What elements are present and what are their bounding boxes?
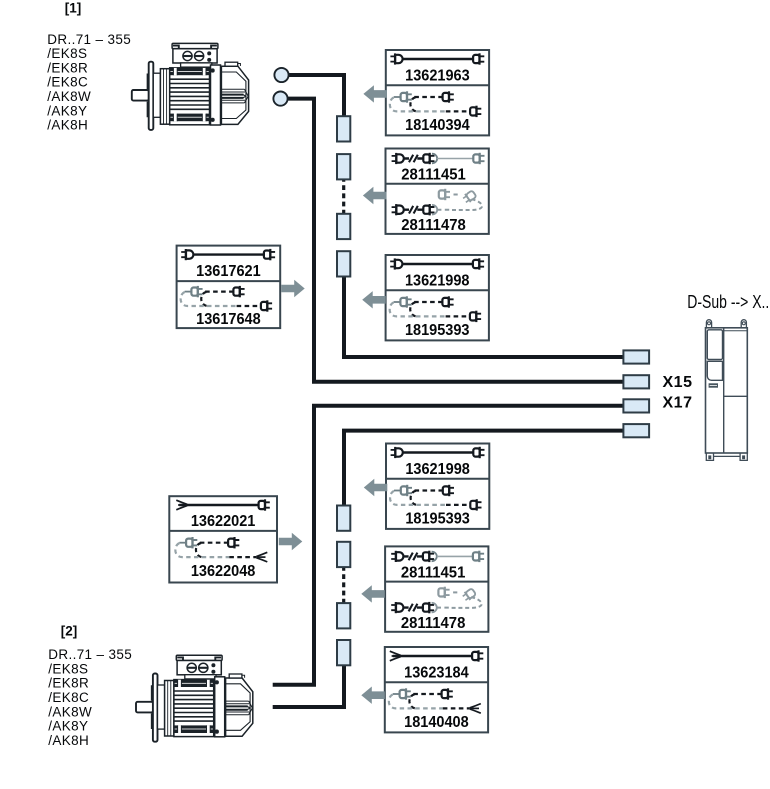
svg-text:/AK8H: /AK8H: [48, 733, 89, 748]
svg-text:[2]: [2]: [61, 623, 78, 638]
connector A4: [337, 251, 350, 276]
label [2]: [61, 623, 78, 638]
part box 28111451 / 28111478 (bottom): [385, 546, 488, 632]
connector B2: [337, 542, 350, 567]
part box 13622021 / 13622048: [169, 496, 277, 582]
stator body with fins: [170, 68, 210, 125]
arrow to chain A from box 28111478: [363, 187, 387, 204]
svg-text:/EK8R: /EK8R: [47, 60, 88, 75]
svg-text:/EK8S: /EK8S: [47, 46, 87, 61]
wire W2 chain A to D-sub block 1: [344, 276, 628, 357]
D-sub connector block 4: [623, 424, 649, 437]
dashed link chain B: [342, 566, 345, 604]
cowl adapter ring: [211, 65, 221, 125]
svg-text:28111451: 28111451: [401, 564, 466, 581]
svg-text:18195393: 18195393: [405, 322, 470, 339]
svg-text:13621998: 13621998: [405, 272, 470, 289]
svg-text:18195393: 18195393: [405, 511, 470, 528]
motor M1 plug circle 1: [274, 68, 288, 82]
svg-text:/AK8H: /AK8H: [47, 118, 88, 133]
D-sub connector block 3 X17: [623, 399, 649, 412]
label X15: [663, 374, 693, 391]
svg-text:18140408: 18140408: [404, 714, 469, 731]
svg-text:13621963: 13621963: [405, 67, 470, 84]
label X17: [663, 394, 693, 411]
svg-text:/EK8C: /EK8C: [47, 75, 88, 90]
arrow to chain B from box 18195393: [364, 479, 388, 496]
svg-text:[1]: [1]: [65, 0, 82, 15]
arrow from box 13622048 to wire: [279, 533, 303, 550]
svg-text:13617621: 13617621: [196, 263, 261, 280]
dashed link chain A: [342, 177, 345, 215]
wire W5 D-sub block 4 to encoder chain B: [344, 431, 628, 509]
svg-text:D-Sub --> X..: D-Sub --> X..: [687, 292, 769, 312]
svg-text:/AK8W: /AK8W: [47, 89, 91, 104]
connector A1: [337, 116, 350, 141]
svg-text:X17: X17: [663, 394, 693, 411]
svg-text:13621998: 13621998: [405, 461, 470, 478]
svg-text:/AK8Y: /AK8Y: [47, 103, 87, 118]
connector A3: [337, 214, 350, 239]
D-sub connector block 1: [623, 350, 649, 363]
inverter unit: [706, 320, 748, 461]
part box 13617621 / 13617648: [177, 246, 281, 329]
part box 13621998 / 18195393 (top): [386, 255, 489, 340]
wire W3 motor1 bottom plug to X15: [287, 99, 628, 382]
flange plate: [149, 62, 154, 130]
arrow to chain B from box 18140408: [361, 687, 385, 704]
part box 28111451 / 28111478 (top): [386, 149, 489, 235]
motor M1 plug circle 2: [273, 92, 287, 106]
bearing housing: [153, 73, 160, 117]
arrow to chain A from box 18195393: [362, 291, 386, 308]
connector B3: [337, 603, 350, 628]
svg-text:/AK8W: /AK8W: [48, 704, 92, 719]
D-sub connector block 2 X15: [623, 375, 649, 388]
svg-text:DR..71 – 355: DR..71 – 355: [47, 32, 131, 47]
encoder bump: [225, 62, 238, 66]
svg-text:28111451: 28111451: [401, 167, 466, 184]
part box 13623184 / 18140408: [385, 647, 488, 732]
corner bolts: [211, 68, 215, 72]
motor M2: [136, 655, 253, 742]
shaft: [132, 90, 149, 101]
rotor lines: [221, 89, 246, 103]
connector B1: [337, 506, 350, 531]
svg-text:/EK8C: /EK8C: [48, 690, 89, 705]
motor2 type labels: [48, 647, 132, 748]
svg-text:18140394: 18140394: [405, 117, 470, 134]
fan cowl: [221, 66, 248, 124]
motor M1: [132, 43, 249, 129]
svg-text:X15: X15: [663, 374, 693, 391]
svg-text:DR..71 – 355: DR..71 – 355: [48, 647, 132, 662]
terminal box: [173, 49, 217, 63]
svg-text:/AK8Y: /AK8Y: [48, 719, 88, 734]
svg-text:28111478: 28111478: [401, 217, 466, 234]
svg-text:/EK8R: /EK8R: [48, 676, 89, 691]
part box 13621963 / 18140394: [386, 50, 489, 135]
arrow from box 13617648 to wire: [281, 280, 305, 297]
part box 13621998 / 18195393 (bottom): [386, 444, 489, 529]
wire W6 chain B to motor2 bottom connection: [273, 664, 344, 707]
svg-text:28111478: 28111478: [401, 615, 466, 632]
svg-text:13617648: 13617648: [196, 311, 261, 328]
connector B4: [337, 640, 350, 665]
svg-text:13623184: 13623184: [404, 664, 469, 681]
svg-text:13622021: 13622021: [191, 513, 256, 530]
arrow to chain A from box 18140394: [363, 85, 387, 102]
stator end ring: [160, 69, 169, 125]
svg-text:/EK8S: /EK8S: [48, 661, 88, 676]
wire W4 X17 to motor2 top connection: [273, 406, 628, 685]
wire W1 motor1 top plug to encoder chain A: [287, 75, 344, 120]
arrow to chain B from box 28111478: [361, 585, 385, 602]
motor1 type labels: [47, 32, 131, 133]
svg-text:13622048: 13622048: [191, 563, 256, 580]
label [1]: [65, 0, 82, 15]
label D-Sub converter: [687, 292, 769, 312]
connector A2: [337, 154, 350, 179]
